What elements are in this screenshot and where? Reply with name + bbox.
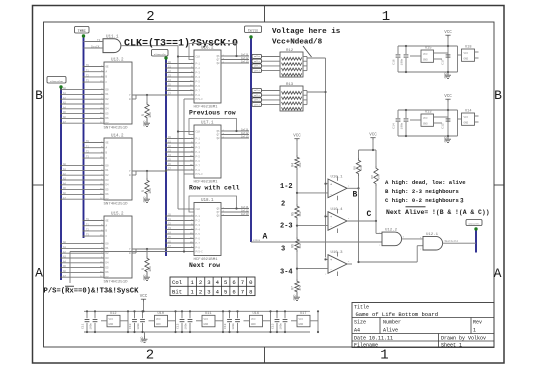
svg-text:Cell1: Cell1 [254,60,261,63]
svg-text:1-2: 1-2 [280,183,293,191]
svg-text:3: 3 [207,288,210,295]
svg-text:2: 2 [199,288,202,295]
svg-text:2: 2 [281,201,285,209]
svg-text:U10.1: U10.1 [331,175,344,179]
svg-text:Cell3: Cell3 [254,103,261,106]
svg-text:U16.2: U16.2 [201,47,214,51]
svg-text:D6: D6 [106,117,110,120]
svg-text:Next Alive= !(B & !(A & C)): Next Alive= !(B & !(A & C)) [386,209,490,216]
svg-text:P-4: P-4 [196,76,201,79]
svg-text:TMRC: TMRC [78,30,86,34]
svg-text:5: 5 [224,279,227,286]
svg-text:D3: D3 [106,103,110,106]
svg-text:A: A [494,266,502,281]
svg-text:D4: D4 [106,108,110,111]
svg-text:GND: GND [142,275,146,281]
svg-text:U18.1: U18.1 [201,199,214,203]
svg-text:alive: alive [253,239,261,242]
svg-text:P/S=(Rx==0)&!T3&!SysCK: P/S=(Rx==0)&!T3&!SysCK [44,288,140,296]
svg-text:Size: Size [354,320,366,326]
svg-text:Cell3: Cell3 [241,60,249,63]
svg-text:C14: C14 [393,123,396,129]
svg-text:R13: R13 [286,83,294,87]
svg-text:VCC: VCC [140,295,148,299]
svg-text:-: - [330,193,332,197]
svg-text:GND: GND [109,323,114,326]
svg-text:A: A [35,266,43,281]
svg-text:1: 1 [473,328,476,334]
svg-text:+: + [330,259,332,263]
svg-text:B: B [353,191,358,200]
svg-text:8: 8 [249,288,252,295]
svg-text:0E: 0E [106,141,110,144]
svg-text:U10: U10 [158,312,164,316]
svg-text:10k: 10k [148,188,152,194]
svg-text:P-7: P-7 [196,242,201,245]
svg-text:D5: D5 [106,112,110,115]
svg-text:Cells: Cells [248,28,258,33]
svg-text:3: 3 [207,279,210,286]
svg-text:C high: 0-2 neighbours: C high: 0-2 neighbours [385,197,459,204]
svg-text:Previous row: Previous row [189,110,236,117]
svg-text:Game of Life Bottom board: Game of Life Bottom board [356,311,439,318]
svg-text:D1: D1 [106,247,110,250]
svg-text:CLK: CLK [196,56,201,59]
svg-text:U17.1: U17.1 [201,122,214,126]
svg-text:GND: GND [140,337,144,343]
svg-text:P-1: P-1 [196,62,201,65]
svg-text:47k: 47k [298,285,302,291]
svg-text:2-3: 2-3 [280,223,293,231]
svg-text:Filename: Filename [354,342,378,348]
svg-text:D3: D3 [106,257,110,260]
svg-text:10k: 10k [298,162,302,168]
svg-text:P-5: P-5 [196,155,201,158]
svg-text:GND: GND [156,323,161,326]
svg-text:P-3: P-3 [196,224,201,227]
svg-text:VCC: VCC [204,318,209,321]
svg-text:C11: C11 [82,323,85,329]
svg-text:VCC: VCC [293,135,301,139]
svg-text:P-2: P-2 [196,219,201,222]
svg-text:GND: GND [204,323,209,326]
svg-text:GND: GND [142,121,146,127]
svg-text:Row with cell: Row with cell [189,185,240,192]
svg-text:1: 1 [380,348,388,364]
svg-text:P-8: P-8 [196,94,201,97]
svg-text:VCC: VCC [444,95,452,99]
svg-text:P-4: P-4 [196,228,201,231]
svg-text:T3: T3 [97,39,101,42]
svg-text:U10.3: U10.3 [331,251,344,255]
svg-text:3: 3 [460,198,464,205]
svg-text:+: + [330,184,332,188]
svg-text:C10: C10 [129,323,132,329]
svg-text:100n: 100n [90,323,93,330]
svg-text:10k: 10k [148,266,152,272]
svg-text:Date 10.11.11: Date 10.11.11 [354,336,393,342]
svg-text:Alive: Alive [383,328,398,334]
svg-text:D3: D3 [106,179,110,182]
svg-text:D2: D2 [106,252,110,255]
svg-text:U12.2: U12.2 [385,229,398,233]
svg-text:D7: D7 [106,122,110,125]
svg-text:P-6: P-6 [196,237,201,240]
svg-text:U11.1: U11.1 [106,36,119,40]
svg-text:CLK: CLK [196,131,201,134]
svg-text:U18: U18 [465,46,471,50]
svg-text:GND: GND [423,59,428,62]
svg-text:SysCK: SysCK [91,46,100,49]
svg-text:D0: D0 [106,164,110,167]
svg-text:-: - [330,269,332,273]
svg-text:Number: Number [383,320,401,326]
svg-text:GND: GND [142,197,146,203]
svg-text:VCC: VCC [156,318,161,321]
svg-text:R4: R4 [291,163,295,167]
svg-text:VCC: VCC [423,117,428,120]
svg-text:Cell3: Cell3 [241,213,249,216]
svg-text:P-6: P-6 [196,85,201,88]
svg-text:Col: Col [172,279,183,286]
svg-text:100n: 100n [232,323,235,330]
svg-text:-: - [330,226,332,230]
svg-text:D7: D7 [106,198,110,201]
svg-text:U15: U15 [425,47,431,51]
svg-text:U10.4: U10.4 [331,208,344,212]
svg-text:U15.2: U15.2 [111,213,124,217]
svg-text:U13: U13 [425,111,431,115]
svg-text:SN74HC251D: SN74HC251D [104,127,129,131]
svg-text:U17: U17 [300,312,306,316]
svg-text:Title: Title [354,305,369,311]
svg-text:1: 1 [382,9,390,25]
svg-text:Drawn by Volkov: Drawn by Volkov [441,336,486,342]
svg-text:D6: D6 [106,271,110,274]
svg-text:R: R [141,268,145,270]
svg-text:C16: C16 [393,59,396,65]
svg-text:A: A [263,233,268,242]
svg-text:P-3: P-3 [196,146,201,149]
svg-text:10k: 10k [298,211,302,217]
svg-text:R: R [141,190,145,192]
svg-text:100n: 100n [401,58,404,65]
svg-text:D2: D2 [106,174,110,177]
svg-text:SN74HC251D: SN74HC251D [104,281,129,285]
svg-text:R12: R12 [286,49,294,53]
svg-text:U14.2: U14.2 [111,135,124,139]
svg-text:R: R [141,114,145,116]
svg-text:U16: U16 [253,312,259,316]
svg-text:P/S-C: P/S-C [196,98,204,101]
svg-text:GND: GND [443,137,447,143]
svg-text:6: 6 [232,279,235,286]
svg-text:U11: U11 [205,312,211,316]
svg-text:7: 7 [241,288,244,295]
svg-text:P/S-C: P/S-C [196,173,204,176]
svg-text:5: 5 [224,288,227,295]
svg-text:CLK: CLK [196,208,201,211]
svg-text:P-3: P-3 [196,71,201,74]
svg-text:C: C [367,210,372,219]
svg-text:R5: R5 [291,212,295,216]
svg-text:R6: R6 [291,244,295,248]
svg-text:3-4: 3-4 [280,269,293,277]
svg-text:R9: R9 [371,175,374,179]
svg-text:D0: D0 [106,88,110,91]
svg-text:D4: D4 [106,262,110,265]
svg-text:D4: D4 [106,184,110,187]
svg-text:Sheet 1: Sheet 1 [441,342,462,348]
svg-text:P-5: P-5 [196,233,201,236]
svg-text:Vcc+Ndead/8: Vcc+Ndead/8 [272,39,323,47]
svg-text:0E: 0E [106,219,110,222]
svg-text:A high: dead, low: alive: A high: dead, low: alive [385,179,466,186]
svg-text:Cell0: Cell0 [254,55,261,58]
svg-text:Voltage here is: Voltage here is [272,28,341,36]
svg-text:2: 2 [199,279,202,286]
svg-text:100n: 100n [280,323,283,330]
svg-text:SN74HC251D: SN74HC251D [104,203,129,207]
svg-text:Cell3: Cell3 [254,69,261,72]
svg-text:Rev: Rev [473,320,482,326]
svg-text:VCC: VCC [464,52,469,55]
svg-text:NextCell2: NextCell2 [445,240,458,243]
svg-text:U12.1: U12.1 [426,233,439,237]
svg-text:100n: 100n [401,122,404,129]
svg-text:D6: D6 [106,193,110,196]
svg-text:D0: D0 [106,242,110,245]
svg-text:B high: 2-3 neighbours: B high: 2-3 neighbours [385,188,459,195]
svg-text:U14: U14 [465,110,471,114]
svg-text:10k: 10k [148,112,152,118]
svg-text:P-8: P-8 [196,169,201,172]
svg-text:GND: GND [292,295,296,301]
svg-text:VCC: VCC [299,318,304,321]
svg-text:Cell0: Cell0 [254,89,261,92]
svg-text:100n: 100n [137,323,140,330]
svg-text:D5: D5 [106,266,110,269]
svg-text:Bit: Bit [172,288,182,295]
svg-text:0E: 0E [106,65,110,68]
svg-text:GND: GND [423,123,428,126]
svg-text:C15: C15 [442,123,445,129]
svg-text:C13: C13 [224,323,227,329]
svg-text:GND: GND [443,73,447,79]
svg-text:Cell1: Cell1 [254,94,261,97]
svg-text:P-1: P-1 [196,137,201,140]
svg-text:Cell2: Cell2 [254,65,260,68]
svg-text:GND: GND [464,58,469,61]
svg-text:VCC: VCC [464,116,469,119]
svg-text:2: 2 [146,9,154,25]
svg-text:P-7: P-7 [196,164,201,167]
svg-text:U13.2: U13.2 [111,59,124,63]
svg-text:D7: D7 [106,276,110,279]
svg-text:P-4: P-4 [196,151,201,154]
svg-text:GND: GND [464,122,469,125]
svg-text:GND: GND [299,323,304,326]
svg-text:B: B [35,88,43,103]
svg-text:VCC: VCC [251,318,256,321]
svg-text:Next row: Next row [189,262,220,269]
svg-text:7: 7 [241,279,244,286]
svg-text:3: 3 [281,246,285,254]
svg-text:10k: 10k [298,243,302,249]
svg-text:VCC: VCC [109,318,114,321]
svg-text:R8: R8 [354,166,357,170]
svg-text:VCC: VCC [444,31,452,35]
svg-text:P-1: P-1 [196,215,201,218]
svg-text:10k: 10k [359,165,363,170]
svg-text:C12: C12 [177,323,180,329]
svg-text:100n: 100n [185,323,188,330]
svg-text:10k: 10k [377,174,381,179]
svg-text:U12: U12 [110,312,116,316]
svg-text:P-2: P-2 [196,142,201,145]
svg-text:Cell3: Cell3 [241,135,249,138]
svg-text:C15: C15 [272,323,275,329]
svg-text:D2: D2 [106,98,110,101]
svg-text:VCC: VCC [369,134,377,138]
svg-text:A4: A4 [354,328,360,334]
svg-text:B: B [494,88,502,103]
svg-text:P-2: P-2 [196,67,201,70]
svg-text:+: + [330,216,332,220]
svg-text:2: 2 [146,348,154,364]
svg-text:P-8: P-8 [196,246,201,249]
svg-text:GND: GND [251,323,256,326]
svg-text:P-7: P-7 [196,89,201,92]
svg-text:Cell2: Cell2 [254,99,260,102]
svg-text:VCC: VCC [423,53,428,56]
svg-text:AliveTilNo: AliveTilNo [50,80,63,83]
svg-text:D1: D1 [106,169,110,172]
svg-text:AliveTilN: AliveTilN [154,53,166,56]
svg-text:R7: R7 [291,286,295,290]
svg-text:6: 6 [232,288,235,295]
svg-text:C17: C17 [442,59,445,65]
svg-text:P/S-C: P/S-C [196,250,204,253]
svg-text:P-6: P-6 [196,160,201,163]
svg-text:P-5: P-5 [196,80,201,83]
svg-text:D1: D1 [106,93,110,96]
svg-text:NextCells: NextCells [469,222,481,225]
svg-text:D5: D5 [106,188,110,191]
